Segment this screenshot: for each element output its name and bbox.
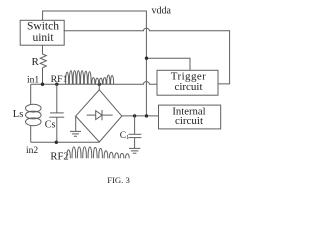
svg-text:RF1: RF1: [51, 74, 68, 85]
node: bridge top junction: [98, 83, 101, 86]
svg-text:in1: in1: [27, 76, 39, 86]
svg-text:RF2: RF2: [50, 152, 68, 163]
diode D1 cathode bar: [101, 110, 103, 120]
svg-text:vdda: vdda: [152, 6, 172, 17]
wire: bridge left vertex to ground: [75, 116, 77, 131]
wire: bridge top stub: [98, 84, 100, 90]
diode bridge diamond D1: [76, 90, 122, 142]
capacitor C1 bottom plate: [129, 137, 142, 139]
capacitor Cs upper lead: [56, 84, 58, 113]
node: C1 junction: [133, 114, 136, 117]
ground (bridge left): [70, 131, 81, 136]
svg-text:FIG. 3: FIG. 3: [107, 175, 130, 185]
capacitor Cs top plate: [50, 112, 64, 114]
diode D1 left lead: [87, 114, 96, 116]
capacitor Cs bottom plate: [49, 116, 64, 118]
wire: bridge right vertex to internal circuit: [122, 115, 159, 117]
resistor R lower lead: [42, 68, 44, 84]
wire: in1/RF1 rail (hop over vdda line) into trigger left: [31, 82, 157, 85]
inductor Ls upper lead: [30, 84, 32, 105]
ground (C1): [129, 148, 140, 153]
wire: vdda tap to trigger top: [147, 58, 191, 70]
node: R to rail junction: [41, 83, 44, 86]
capacitor C1 upper lead: [134, 116, 136, 134]
switch unit box U1: [20, 20, 64, 45]
svg-text:uinit: uinit: [32, 32, 54, 44]
svg-text:in2: in2: [26, 146, 38, 156]
node: Cs top junction: [55, 83, 58, 86]
inductor Ls coil: [26, 104, 42, 112]
svg-text:R: R: [32, 56, 40, 68]
node: vdda to internal junction: [145, 114, 148, 117]
capacitor C1 top plate: [129, 133, 142, 135]
node: vdda tap junction: [145, 57, 148, 60]
svg-text:C1: C1: [120, 131, 129, 141]
wire: switch top up, vdda rail right, vdda vertical down: [43, 11, 147, 116]
wire: switch right to top-right corner, down, into trigger right (hop over vdda line): [64, 28, 230, 84]
diode D1 triangle: [96, 111, 102, 120]
RF2 signal squiggle: [67, 147, 129, 158]
svg-text:Cs: Cs: [45, 120, 56, 131]
resistor R wire upper lead: [42, 45, 44, 54]
svg-text:Ls: Ls: [13, 109, 23, 120]
RF1 signal squiggle: [66, 71, 114, 85]
svg-text:circuit: circuit: [174, 81, 202, 93]
svg-text:Switch: Switch: [27, 21, 59, 33]
inductor Ls lower lead: [30, 125, 32, 142]
internal circuit box U3: [159, 105, 221, 129]
wire: in2 rail: [31, 141, 100, 143]
capacitor Cs lower lead: [56, 117, 58, 142]
trigger circuit box U2: [157, 70, 218, 95]
node: Cs bottom junction: [55, 141, 58, 144]
resistor R zigzag: [40, 54, 46, 68]
capacitor C1 lower lead: [134, 138, 136, 149]
diode D1 right lead: [102, 114, 113, 116]
svg-text:circuit: circuit: [175, 115, 203, 127]
